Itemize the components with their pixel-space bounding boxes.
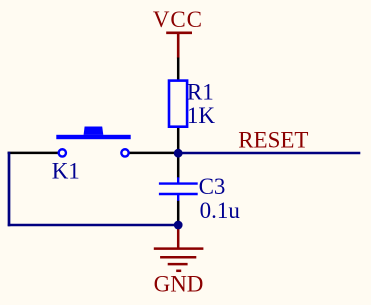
power symbol VCC <box>166 32 192 59</box>
svg-text:VCC: VCC <box>153 7 203 32</box>
svg-text:GND: GND <box>154 271 204 296</box>
svg-text:0.1u: 0.1u <box>200 198 241 223</box>
capacitor C3 <box>159 153 198 225</box>
svg-text:K1: K1 <box>52 158 80 183</box>
resistor R1 <box>169 58 187 155</box>
junction node bottom <box>174 221 183 230</box>
svg-text:RESET: RESET <box>238 127 308 152</box>
svg-text:C3: C3 <box>199 174 226 199</box>
ground symbol GND <box>154 227 204 271</box>
wire left vertical <box>8 152 11 226</box>
junction node RESET <box>174 149 183 158</box>
pushbutton K1 <box>8 127 179 157</box>
svg-text:R1: R1 <box>187 80 214 105</box>
svg-text:1K: 1K <box>187 103 216 128</box>
wire RESET net horizontal <box>178 152 360 155</box>
wire bottom horizontal <box>8 224 178 227</box>
